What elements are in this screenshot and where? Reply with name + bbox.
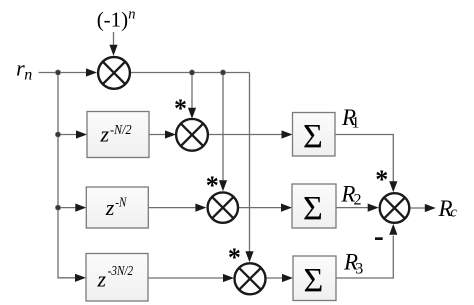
node A junction dot — [55, 70, 60, 75]
svg-text:z: z — [105, 195, 115, 220]
arrowhead into M1 left — [86, 68, 97, 76]
wire: M1 output bus along top — [131, 72, 250, 74]
wire: M4 output to sum S3 — [266, 277, 284, 279]
arrowhead into Z3 — [75, 274, 86, 282]
svg-text:2: 2 — [354, 192, 362, 209]
multiplier M2 — [176, 119, 208, 151]
svg-text:Σ: Σ — [304, 262, 324, 299]
label R2 — [340, 182, 361, 209]
node E junction dot — [220, 70, 225, 75]
block Z1 z^-N/2 — [87, 112, 149, 158]
summation S3 — [293, 256, 336, 301]
arrowhead into M3 left — [195, 204, 206, 212]
wire: vertical feed to M3 top — [222, 73, 224, 182]
node C junction dot — [55, 205, 60, 210]
block Z3 z^-3N/2 — [86, 254, 148, 302]
wire: Z2 output to M3 — [149, 207, 198, 209]
summation S2 — [292, 184, 336, 228]
wire: R3 from S3 up into M5 bottom — [336, 236, 393, 279]
wire: Z1 output to M2 — [149, 134, 166, 136]
wire: branch to block Z2 — [58, 207, 77, 209]
wire: r_n input to multiplier M1 — [39, 72, 89, 74]
label Rc — [438, 196, 458, 221]
arrowhead into M5 bottom (from R3, minus input) — [389, 224, 397, 235]
wire: vertical feed to M4 top — [249, 73, 251, 253]
svg-text:n: n — [128, 7, 135, 23]
svg-text:*: * — [174, 94, 187, 123]
arrowhead into M4 top — [245, 251, 253, 262]
wire: (-1)^n arrow stem into M1 — [113, 32, 115, 46]
arrowhead into M2 left — [165, 130, 176, 138]
label minus at M5 bottom input — [375, 237, 383, 240]
summation S1 — [293, 113, 336, 157]
wire: left trunk vertical with elbow into block Z3 — [58, 73, 78, 278]
arrowhead into M2 top — [188, 108, 196, 119]
svg-text:*: * — [375, 165, 388, 194]
arrowhead into S2 — [281, 204, 292, 212]
svg-text:(-1): (-1) — [97, 8, 128, 32]
block Z2 z^-N — [86, 187, 148, 228]
arrowhead from (-1)^n into M1 top — [109, 45, 117, 56]
arrowhead into Z2 — [75, 204, 86, 212]
multiplier M1 — [98, 57, 130, 89]
svg-text:*: * — [206, 171, 219, 200]
multiplier M4 — [235, 263, 266, 294]
svg-text:z: z — [97, 266, 107, 291]
label r_n — [16, 56, 32, 84]
arrowhead into M5 top — [389, 181, 397, 192]
node D junction dot — [189, 70, 194, 75]
arrowhead into Z1 — [76, 130, 87, 138]
wire: Z3 output to M4 — [148, 277, 224, 279]
wire: M5 output toward Rc — [410, 207, 427, 209]
wire: R1 from S1 down into M5 top — [335, 135, 393, 183]
svg-text:-N/2: -N/2 — [110, 123, 132, 138]
svg-text:z: z — [100, 122, 110, 147]
wire: branch to block Z1 — [58, 134, 78, 136]
svg-text:-N: -N — [115, 196, 127, 211]
arrowhead into S3 — [282, 274, 293, 282]
wire: M2 output to sum S1 — [208, 134, 283, 136]
label R3 — [343, 250, 363, 278]
wire: vertical feed to M2 top — [191, 73, 193, 109]
wire: M3 output to sum S2 — [239, 207, 282, 209]
svg-text:-3N/2: -3N/2 — [108, 263, 134, 278]
arrowhead into M5 left — [368, 204, 379, 212]
svg-text:1: 1 — [352, 115, 360, 132]
svg-text:3: 3 — [355, 260, 363, 277]
multiplier M3 — [208, 192, 238, 222]
wire: R2 from S2 into M5 left — [336, 207, 369, 209]
svg-text:*: * — [228, 243, 241, 272]
node B junction dot — [55, 132, 60, 137]
arrowhead output Rc — [425, 204, 436, 212]
svg-text:c: c — [450, 205, 457, 221]
label (-1)^n — [97, 7, 136, 32]
svg-text:n: n — [24, 66, 32, 83]
arrowhead into S1 — [282, 130, 293, 138]
svg-text:Σ: Σ — [303, 190, 323, 227]
arrowhead into M4 left — [223, 274, 234, 282]
svg-text:Σ: Σ — [303, 118, 323, 155]
multiplier M5 — [380, 193, 410, 223]
label R1 — [341, 105, 360, 132]
arrowhead into M3 top — [219, 180, 227, 191]
